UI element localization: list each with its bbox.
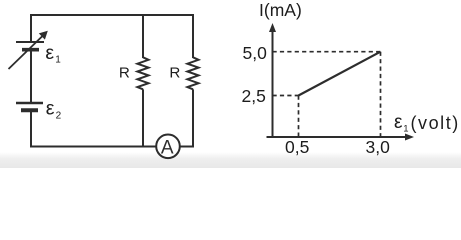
emf source E1 plate short thick [22, 48, 39, 52]
svg-text:1: 1 [403, 124, 408, 135]
dashed guide vertical at 3.0 [380, 52, 382, 137]
wire top [30, 14, 194, 16]
wire right upper [192, 14, 194, 58]
svg-text:R: R [169, 65, 180, 82]
graph y-axis [269, 23, 276, 138]
svg-text:R: R [119, 65, 130, 82]
resistor R middle zigzag [137, 57, 148, 89]
svg-text:(volt): (volt) [411, 113, 460, 133]
wire left middle [30, 50, 32, 103]
dashed guide vertical at 0.5 [298, 96, 300, 138]
resistor R right zigzag [187, 57, 198, 89]
svg-text:3,0: 3,0 [366, 137, 391, 157]
svg-text:ε: ε [46, 98, 55, 120]
gray band bottom [0, 152, 461, 168]
battery E2 plate short thick [21, 108, 38, 112]
wire left upper [30, 14, 32, 42]
dashed guide horizontal at 2.5 [273, 95, 299, 97]
label ε1 [45, 42, 61, 66]
wire left lower [30, 110, 32, 147]
graph line [299, 52, 381, 96]
svg-text:1: 1 [55, 55, 61, 66]
wire middle branch lower [142, 89, 144, 147]
wire middle branch upper [142, 15, 144, 58]
battery E2 plate long [16, 102, 43, 104]
ammeter A [156, 135, 180, 159]
label ε2 [46, 98, 62, 122]
arrow variable E1 [9, 31, 48, 69]
wire right lower [192, 89, 194, 147]
emf source E1 (variable) plate long [16, 41, 44, 43]
svg-text:2: 2 [56, 110, 62, 121]
svg-text:2,5: 2,5 [242, 86, 266, 106]
wire bottom right stub [180, 146, 194, 148]
svg-text:0,5: 0,5 [285, 137, 309, 157]
svg-text:ε: ε [45, 42, 54, 64]
svg-text:I(mA): I(mA) [259, 0, 302, 20]
wire bottom left [30, 146, 156, 148]
graph x-axis [267, 134, 415, 141]
dashed guide horizontal at 5.0 [273, 51, 381, 53]
svg-text:ε: ε [394, 112, 403, 133]
label ε1 (volt) [394, 112, 460, 135]
svg-text:A: A [161, 138, 174, 159]
svg-text:5,0: 5,0 [243, 43, 268, 63]
